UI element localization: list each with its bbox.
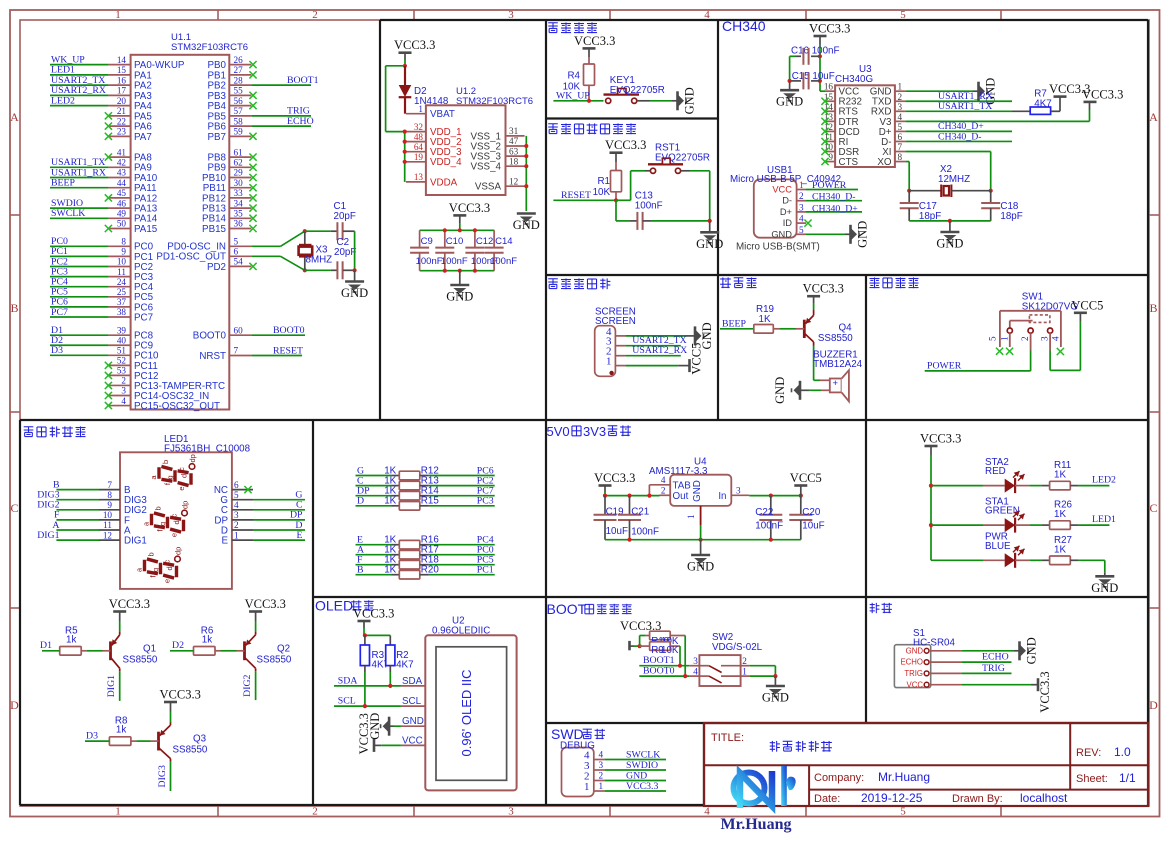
pin 39 PC8 of U1.1 bbox=[108, 334, 130, 336]
svg-text:9: 9 bbox=[828, 152, 833, 162]
svg-text:40: 40 bbox=[117, 335, 127, 345]
switch SW2 VDG/S-02L bbox=[699, 655, 740, 686]
wire bottom gnd rail bbox=[605, 539, 801, 541]
wire R8 to base bbox=[136, 740, 150, 742]
pin 61 PB8 of U1.1 bbox=[229, 156, 251, 158]
svg-text:PC3: PC3 bbox=[477, 496, 494, 507]
power flag VCC3.3 bbox=[807, 295, 820, 298]
svg-text:D3: D3 bbox=[86, 730, 98, 741]
svg-text:RESET: RESET bbox=[561, 190, 591, 201]
junction bbox=[524, 144, 528, 148]
wire VCC to Q4 emitter bbox=[813, 303, 815, 310]
pin 29 PB10 of U1.1 bbox=[229, 177, 251, 179]
svg-text:47: 47 bbox=[509, 136, 519, 146]
pin 8 PC0 of U1.1 bbox=[108, 245, 130, 247]
pin 7 XI of U3 bbox=[895, 151, 905, 153]
svg-text:Mr.Huang: Mr.Huang bbox=[721, 816, 792, 833]
svg-text:4: 4 bbox=[1050, 336, 1060, 341]
wire net USART1_RX bbox=[50, 177, 108, 179]
wire U4 pin1 to rail bbox=[700, 525, 702, 540]
pin 18 VSS_4 of U1.2 bbox=[506, 165, 525, 167]
svg-text:C10: C10 bbox=[446, 236, 463, 247]
wire VCC to Q1 emitter bbox=[119, 621, 121, 632]
wire net SCL bbox=[334, 705, 401, 707]
svg-text:43: 43 bbox=[117, 168, 127, 178]
no-connect X bbox=[249, 92, 256, 99]
svg-text:GND: GND bbox=[906, 646, 924, 655]
svg-text:3: 3 bbox=[736, 486, 741, 496]
wire net A bbox=[56, 529, 99, 531]
svg-text:D3: D3 bbox=[51, 345, 63, 356]
switch RST1 EVQ22705R bbox=[650, 168, 655, 173]
power flag VCC3.3 bbox=[1054, 95, 1067, 98]
wire cap top rail bbox=[420, 229, 495, 231]
capacitor C9 100nF bbox=[419, 230, 421, 247]
svg-text:9: 9 bbox=[121, 247, 126, 257]
wire out rail bbox=[604, 492, 606, 496]
no-connect X pin5 bbox=[996, 348, 1003, 355]
svg-text:1K: 1K bbox=[1054, 509, 1066, 520]
svg-text:ECHO: ECHO bbox=[982, 652, 1009, 663]
ground bbox=[1018, 641, 1021, 660]
wire VCC to Q2 emitter bbox=[255, 621, 257, 632]
wire net LED2 bbox=[50, 105, 108, 107]
svg-text:TITLE:: TITLE: bbox=[711, 732, 744, 744]
svg-text:0.96' OLED IIC: 0.96' OLED IIC bbox=[459, 669, 474, 756]
svg-text:12: 12 bbox=[509, 176, 519, 186]
wire net PC1 bbox=[50, 255, 108, 257]
no-connect X bbox=[105, 133, 112, 140]
svg-text:1K: 1K bbox=[384, 565, 396, 576]
svg-text:CH340_D+: CH340_D+ bbox=[812, 203, 858, 214]
pin 44 PA11 of U1.1 bbox=[108, 187, 130, 189]
svg-text:D+: D+ bbox=[780, 207, 792, 217]
wire net C bbox=[253, 509, 305, 511]
svg-text:61: 61 bbox=[234, 147, 244, 157]
svg-text:DIG1: DIG1 bbox=[124, 536, 147, 547]
wire net USART1_RX bbox=[905, 100, 1012, 102]
svg-text:37: 37 bbox=[117, 297, 127, 307]
pin 43 PA10 of U1.1 bbox=[108, 177, 130, 179]
pin 11 PC3 of U1.1 bbox=[108, 276, 130, 278]
svg-text:10K: 10K bbox=[593, 187, 611, 198]
svg-text:1K: 1K bbox=[384, 496, 396, 507]
svg-text:e: e bbox=[177, 487, 186, 491]
svg-text:REV:: REV: bbox=[1076, 747, 1101, 759]
wire U3 GND pin1 bbox=[905, 90, 973, 92]
svg-text:CH340_D-: CH340_D- bbox=[938, 131, 982, 142]
pin 51 PC10 of U1.1 bbox=[108, 354, 130, 356]
svg-text:12MHZ: 12MHZ bbox=[938, 174, 970, 185]
wire net PC7 bbox=[50, 316, 108, 318]
title block frame bbox=[704, 723, 1148, 806]
svg-text:60: 60 bbox=[234, 325, 244, 335]
svg-text:GND: GND bbox=[762, 691, 789, 705]
svg-text:56: 56 bbox=[234, 96, 244, 106]
pin 3 DP of LED1 bbox=[232, 519, 253, 521]
svg-text:45: 45 bbox=[117, 188, 127, 198]
svg-text:VCC3.3: VCC3.3 bbox=[245, 597, 286, 611]
pin 21 PA5 of U1.1 bbox=[108, 115, 130, 117]
svg-text:4: 4 bbox=[898, 112, 903, 122]
pin 60 BOOT0 of U1.1 bbox=[229, 334, 251, 336]
svg-text:53: 53 bbox=[117, 366, 127, 376]
svg-text:4: 4 bbox=[661, 475, 666, 485]
svg-text:PC7: PC7 bbox=[134, 312, 153, 323]
svg-text:3: 3 bbox=[508, 806, 514, 818]
junction bbox=[683, 674, 687, 678]
pin 52 PC11 of U1.1 bbox=[108, 364, 130, 366]
svg-text:16: 16 bbox=[117, 75, 127, 85]
wire net D1 bbox=[42, 650, 60, 652]
resistor R12 1K bbox=[356, 475, 392, 477]
junction bbox=[363, 704, 367, 708]
wire net D1 bbox=[50, 334, 108, 336]
junction bbox=[363, 633, 367, 637]
svg-text:VCC3.3: VCC3.3 bbox=[394, 38, 435, 52]
power flag VCC3.3 bbox=[164, 701, 177, 704]
pin 54 PD2 of U1.1 bbox=[229, 265, 251, 267]
svg-text:g: g bbox=[166, 475, 175, 479]
block title serial and screen bbox=[548, 278, 558, 280]
svg-text:BOOT0: BOOT0 bbox=[273, 325, 305, 336]
svg-text:4: 4 bbox=[799, 214, 804, 224]
wire PD1 to crystal bbox=[251, 255, 280, 257]
pin 11 RI of U3 bbox=[825, 140, 835, 142]
svg-text:100nF: 100nF bbox=[631, 527, 659, 538]
svg-text:1: 1 bbox=[799, 180, 804, 190]
wire net RESET bbox=[553, 199, 616, 201]
connector DEBUG body bbox=[562, 748, 594, 797]
pin 3 RXD of U3 bbox=[895, 110, 905, 112]
pin 13 VDDA of U1.2 bbox=[406, 181, 426, 183]
junction bbox=[929, 523, 933, 527]
wire SW1 pin3 to VCC5 bbox=[1049, 351, 1051, 371]
block title distance measure bbox=[870, 604, 875, 606]
junction bbox=[769, 538, 773, 542]
wire GND to U2 bbox=[389, 725, 394, 727]
wire net VCC3.3 bbox=[605, 790, 666, 792]
svg-text:E: E bbox=[221, 536, 228, 547]
svg-text:GND: GND bbox=[1091, 581, 1118, 595]
svg-text:3: 3 bbox=[693, 656, 698, 666]
capacitor C10 100nF bbox=[444, 230, 446, 247]
svg-text:e: e bbox=[163, 579, 172, 583]
svg-text:7: 7 bbox=[234, 346, 239, 356]
pin 20 PA4 of U1.1 bbox=[108, 105, 130, 107]
svg-text:SS8550: SS8550 bbox=[123, 654, 158, 665]
svg-text:VDDA: VDDA bbox=[430, 177, 458, 188]
wire net DIG1 bbox=[56, 539, 99, 541]
svg-text:GND: GND bbox=[692, 480, 703, 502]
junction bbox=[638, 644, 642, 648]
wire S1 VCC bbox=[962, 684, 1031, 686]
svg-text:6: 6 bbox=[898, 132, 903, 142]
svg-text:ID: ID bbox=[783, 218, 793, 228]
wire net USART2_RX bbox=[625, 355, 680, 357]
wire net SWCLK bbox=[605, 759, 666, 761]
wire R3 to SCL bbox=[364, 672, 366, 706]
wire USB1 GND bbox=[806, 233, 845, 235]
junction bbox=[773, 674, 777, 678]
transistor Q3 SS8550 bbox=[157, 732, 160, 751]
junction node crystal top bbox=[303, 229, 307, 233]
resistor R17 1K bbox=[356, 554, 392, 556]
svg-text:C: C bbox=[1149, 501, 1157, 515]
svg-text:63: 63 bbox=[509, 146, 519, 156]
wire SW2 pin2 bbox=[741, 665, 750, 667]
svg-text:VCC3.3: VCC3.3 bbox=[353, 607, 394, 621]
wire net DIG3 bbox=[170, 762, 172, 791]
wire U3 RXD to R7 bbox=[905, 110, 1012, 112]
svg-text:VCC3.3: VCC3.3 bbox=[109, 597, 150, 611]
svg-text:SS8550: SS8550 bbox=[257, 654, 292, 665]
svg-text:B: B bbox=[10, 301, 18, 315]
junction bbox=[708, 219, 712, 223]
svg-text:100nF: 100nF bbox=[755, 521, 783, 532]
ground bbox=[1104, 572, 1106, 576]
pin 5 GND of USB1 bbox=[797, 233, 806, 235]
junction bbox=[403, 130, 407, 134]
pin 25 PC5 of U1.1 bbox=[108, 296, 130, 298]
svg-text:4K7: 4K7 bbox=[396, 660, 413, 671]
pin 5 PD0-OSC_IN of U1.1 bbox=[229, 245, 251, 247]
pin 3 PC14-OSC32_IN of U1.1 bbox=[108, 395, 130, 397]
no-connect X bbox=[105, 194, 112, 201]
pin 4 TAB of U4 bbox=[649, 484, 670, 486]
wire net TRIG bbox=[962, 672, 1012, 674]
ic U4 body bbox=[670, 475, 731, 506]
pin 9 DIG2 of LED1 bbox=[99, 509, 120, 511]
ground bbox=[949, 221, 951, 232]
pin 3 In of U4 bbox=[731, 494, 749, 496]
no-connect X bbox=[249, 133, 256, 140]
switch SW1 SK12D07VG bbox=[1000, 310, 1061, 312]
ground bbox=[774, 676, 776, 685]
pin 1 GND of U3 bbox=[895, 90, 905, 92]
svg-text:DIG1: DIG1 bbox=[37, 530, 59, 541]
power flag VCC3.3 bbox=[1084, 101, 1097, 104]
svg-text:10uF: 10uF bbox=[802, 521, 824, 532]
wire net DIG2 bbox=[255, 671, 257, 700]
ground bbox=[977, 82, 980, 101]
wire net DIG3 bbox=[56, 499, 99, 501]
wire net SWDIO bbox=[50, 207, 108, 209]
connector SCREEN body bbox=[595, 326, 616, 377]
pin 4 ID of USB1 bbox=[797, 222, 806, 224]
power flag VCC5 bbox=[688, 359, 691, 372]
svg-text:b: b bbox=[147, 552, 156, 556]
svg-text:8MHZ: 8MHZ bbox=[306, 255, 333, 266]
wire In rail bbox=[749, 495, 801, 497]
svg-text:1: 1 bbox=[234, 530, 239, 540]
wire SCREEN pin4 to GND bbox=[625, 335, 686, 337]
svg-text:GND: GND bbox=[446, 290, 473, 304]
junction node crystal bottom bbox=[303, 268, 307, 272]
svg-text:CH340: CH340 bbox=[722, 18, 766, 34]
svg-text:35: 35 bbox=[234, 209, 244, 219]
junction bbox=[603, 494, 607, 498]
ground bbox=[694, 326, 697, 345]
wire net ECHO bbox=[251, 125, 311, 127]
svg-text:C22: C22 bbox=[755, 507, 773, 518]
svg-text:R20: R20 bbox=[421, 565, 440, 576]
wire net POWER bbox=[806, 189, 858, 191]
pin 15 PA1 of U1.1 bbox=[108, 74, 130, 76]
wire net PC2 bbox=[50, 266, 108, 268]
svg-text:VSS_4: VSS_4 bbox=[470, 162, 501, 173]
pin 47 VSS_2 of U1.2 bbox=[506, 145, 525, 147]
ic U1.1 body bbox=[131, 55, 230, 410]
pin 10 DSR of U3 bbox=[825, 151, 835, 153]
svg-text:11: 11 bbox=[103, 520, 112, 530]
svg-text:2: 2 bbox=[799, 191, 804, 201]
svg-text:49: 49 bbox=[117, 209, 127, 219]
svg-text:6: 6 bbox=[234, 247, 239, 257]
junction bbox=[353, 268, 357, 272]
wire net D bbox=[253, 529, 305, 531]
svg-text:C16 100nF: C16 100nF bbox=[791, 46, 839, 57]
wire VCC to junction bbox=[630, 645, 635, 647]
svg-text:1: 1 bbox=[999, 336, 1009, 341]
diode D2 1N4148 bbox=[404, 66, 406, 85]
wire net DIG2 bbox=[56, 509, 99, 511]
pin 12 DIG1 of LED1 bbox=[99, 539, 120, 541]
pin 9 PC1 of U1.1 bbox=[108, 255, 130, 257]
svg-text:39: 39 bbox=[117, 325, 127, 335]
wire to cap rail bbox=[459, 223, 461, 230]
pin 30 PB11 of U1.1 bbox=[229, 187, 251, 189]
svg-text:10: 10 bbox=[103, 510, 113, 520]
wire R10 to BOOT0 bbox=[684, 636, 686, 677]
resistor R15 1K bbox=[356, 505, 392, 507]
junction bbox=[587, 99, 591, 103]
svg-text:52: 52 bbox=[117, 356, 127, 366]
svg-text:TMB12A24: TMB12A24 bbox=[813, 359, 863, 370]
pin 2 D of LED1 bbox=[232, 529, 253, 531]
pin 1 VBAT of U1.2 bbox=[406, 113, 426, 115]
wire net ECHO bbox=[962, 661, 1012, 663]
svg-text:R4: R4 bbox=[567, 71, 580, 82]
svg-text:5V0: 5V0 bbox=[547, 424, 570, 439]
svg-text:Out: Out bbox=[673, 491, 689, 502]
svg-text:1: 1 bbox=[686, 514, 696, 519]
capacitor C21 100nF bbox=[629, 496, 631, 515]
ground bbox=[849, 225, 852, 244]
wire net PC0 bbox=[50, 245, 108, 247]
svg-text:USART1_TX: USART1_TX bbox=[938, 101, 992, 112]
svg-text:C12: C12 bbox=[476, 236, 493, 247]
svg-text:3: 3 bbox=[799, 202, 804, 212]
svg-text:Q2: Q2 bbox=[277, 643, 290, 654]
svg-text:VCC3.3: VCC3.3 bbox=[574, 34, 615, 48]
resistor R4 10K bbox=[588, 57, 590, 64]
svg-text:38: 38 bbox=[117, 307, 127, 317]
svg-text:16: 16 bbox=[824, 82, 834, 92]
svg-text:PB7: PB7 bbox=[207, 132, 226, 143]
pin 22 PA6 of U1.1 bbox=[108, 125, 130, 127]
svg-text:20: 20 bbox=[117, 96, 127, 106]
junction bbox=[989, 189, 993, 193]
pin 59 PB7 of U1.1 bbox=[229, 135, 251, 137]
pin 16 PA2 of U1.1 bbox=[108, 84, 130, 86]
svg-text:24: 24 bbox=[117, 277, 127, 287]
svg-text:NRST: NRST bbox=[199, 351, 226, 362]
svg-text:2: 2 bbox=[898, 92, 903, 102]
pin1 marker dot bbox=[609, 371, 613, 375]
no-connect X bbox=[105, 402, 112, 409]
svg-text:VCC3.3: VCC3.3 bbox=[1038, 671, 1052, 712]
pin 40 PC9 of U1.1 bbox=[108, 344, 130, 346]
svg-text:DIG3: DIG3 bbox=[157, 765, 168, 787]
pin 7 B of LED1 bbox=[99, 489, 120, 491]
svg-text:c: c bbox=[163, 560, 172, 564]
svg-text:d: d bbox=[172, 520, 181, 524]
svg-text:27: 27 bbox=[234, 65, 244, 75]
svg-text:D-: D- bbox=[782, 196, 792, 206]
ic U3 body bbox=[835, 85, 895, 167]
svg-text:B: B bbox=[1149, 301, 1157, 315]
svg-text:SWDIO: SWDIO bbox=[626, 760, 658, 771]
wire net POWER bbox=[925, 370, 1031, 372]
junction bbox=[678, 664, 682, 668]
pin 11 A of LED1 bbox=[99, 529, 120, 531]
svg-text:1: 1 bbox=[418, 104, 423, 114]
wire right join bbox=[774, 666, 776, 676]
pin 17 PA3 of U1.1 bbox=[108, 94, 130, 96]
svg-text:5: 5 bbox=[234, 490, 239, 500]
no-connect X pin4 bbox=[1057, 348, 1064, 355]
svg-text:6: 6 bbox=[234, 480, 239, 490]
capacitor C19 10uF bbox=[604, 496, 606, 515]
svg-text:31: 31 bbox=[509, 126, 519, 136]
wire crystal caps join bbox=[354, 231, 356, 270]
svg-text:d: d bbox=[180, 474, 189, 478]
capacitor C18 18pF bbox=[990, 191, 992, 203]
svg-text:B: B bbox=[357, 565, 364, 576]
pin 36 PB15 of U1.1 bbox=[229, 228, 251, 230]
7-segment digit 3 bbox=[135, 547, 183, 584]
wire net CH340_D- bbox=[905, 140, 1012, 142]
no-connect X bbox=[821, 108, 828, 115]
svg-text:Q1: Q1 bbox=[143, 643, 156, 654]
wire net G bbox=[253, 499, 305, 501]
svg-text:44: 44 bbox=[117, 178, 127, 188]
wire net BOOT1 bbox=[251, 84, 311, 86]
junction bbox=[524, 184, 528, 188]
connector S1 body bbox=[894, 645, 930, 688]
wire VCC3.3 rail to VDD pins bbox=[386, 65, 405, 67]
svg-text:TRIG: TRIG bbox=[982, 663, 1005, 674]
svg-text:Micro USB-B(SMT): Micro USB-B(SMT) bbox=[736, 242, 820, 253]
wire net D2 bbox=[50, 344, 108, 346]
no-connect X bbox=[105, 392, 112, 399]
no-connect X bbox=[821, 158, 828, 165]
svg-text:3: 3 bbox=[1040, 336, 1050, 341]
wire buzzer to GND bbox=[821, 389, 830, 391]
svg-text:D: D bbox=[357, 496, 364, 507]
svg-text:58: 58 bbox=[234, 116, 244, 126]
svg-text:34: 34 bbox=[234, 198, 244, 208]
wire net CH340_D+ bbox=[806, 211, 862, 213]
no-connect X bbox=[249, 71, 256, 78]
pin 57 PB5 of U1.1 bbox=[229, 115, 251, 117]
wire net D3 bbox=[50, 354, 108, 356]
pin 3 of SCREEN bbox=[615, 345, 625, 347]
svg-text:Drawn By:: Drawn By: bbox=[952, 793, 1003, 805]
resistor R3 4K7 bbox=[364, 635, 366, 645]
junction bbox=[929, 484, 933, 488]
